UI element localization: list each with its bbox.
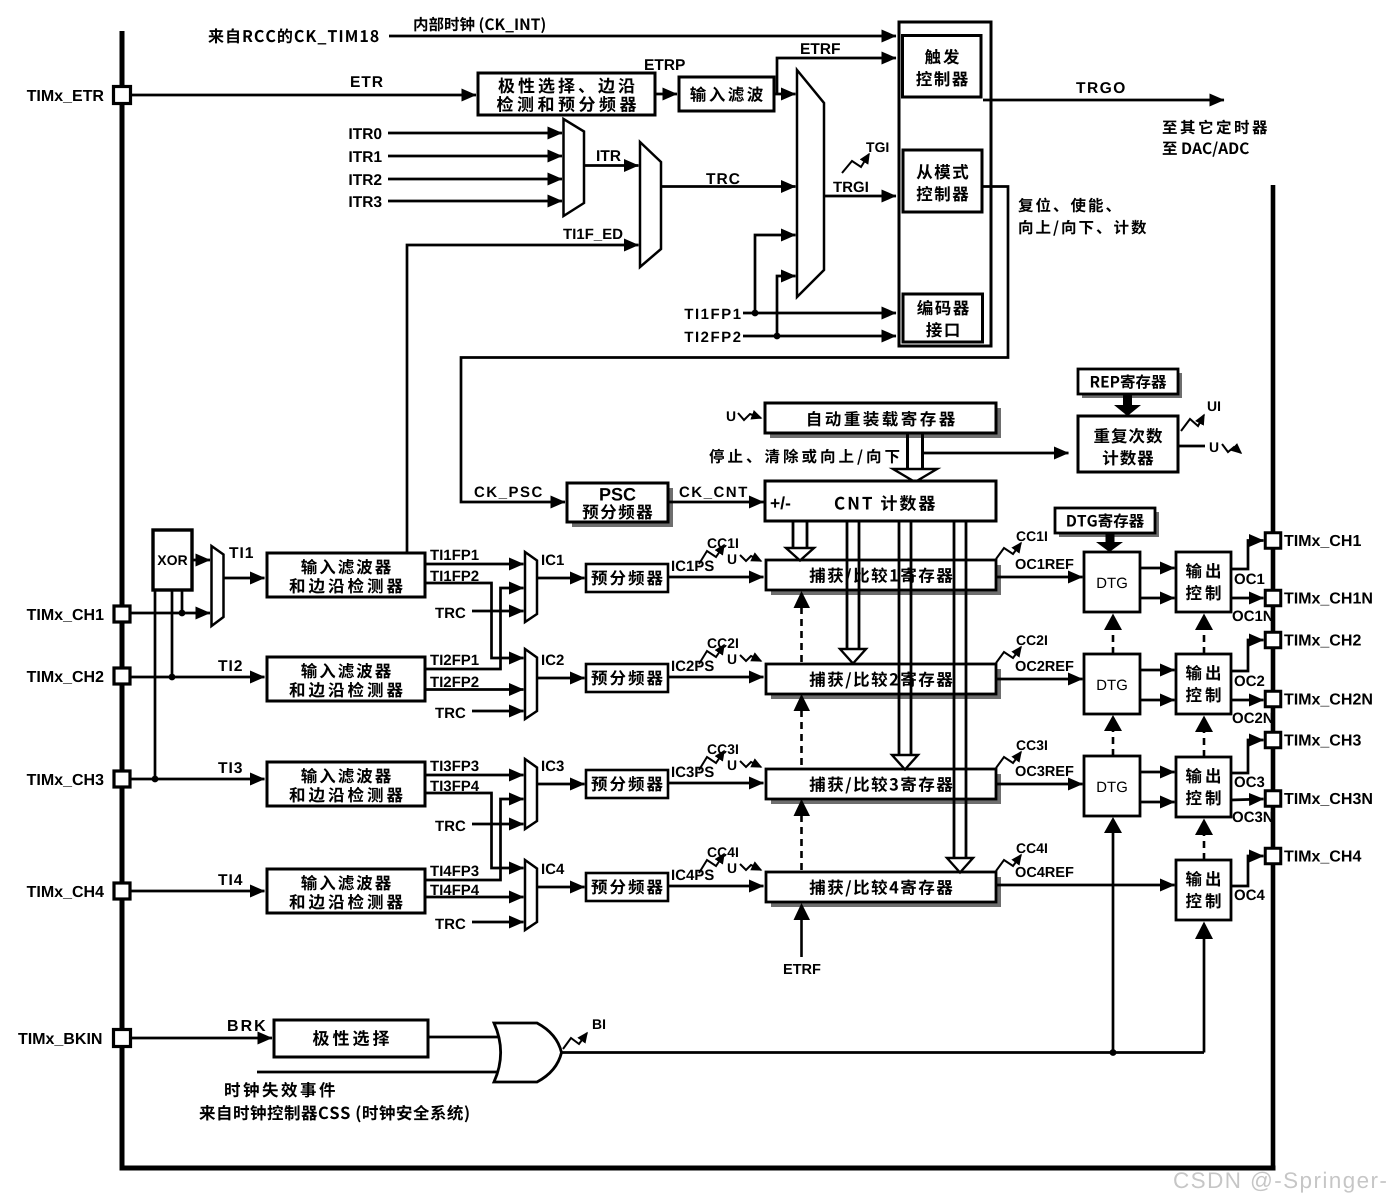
zigzag CC3I left xyxy=(699,744,738,770)
label TI3FP3 xyxy=(430,761,439,771)
wire TI2FP1 cross to IC1 mux xyxy=(425,588,524,669)
zigzag CC2I right xyxy=(996,635,1047,663)
label IC3 xyxy=(542,761,544,771)
arrow REP to repetition counter xyxy=(1114,394,1141,416)
label IC4PS xyxy=(672,870,674,880)
label IC2PS xyxy=(672,661,674,671)
pad TIMx_CH4 left xyxy=(114,883,130,899)
wire OC3N xyxy=(1231,799,1264,800)
wire BI dashed DTG2 xyxy=(1104,715,1122,756)
wire OC3 xyxy=(1231,740,1264,773)
box XOR xyxy=(153,530,192,590)
wire TI2FP2 to encoder xyxy=(743,335,896,338)
wire OC1 xyxy=(1231,541,1264,570)
wire left port bus xyxy=(120,31,125,1168)
wire TI3 input xyxy=(130,778,265,781)
wire TRC row3 xyxy=(472,823,524,826)
label 至 DAC/ADC xyxy=(1163,142,1177,155)
label ETRF bottom xyxy=(784,964,792,974)
label TI4FP4 xyxy=(430,885,439,895)
wire OC2REF xyxy=(996,678,1083,681)
label IC4 xyxy=(542,864,544,874)
mux IC4 select xyxy=(525,860,537,930)
wire OC2 xyxy=(1231,640,1264,671)
label IC1 xyxy=(542,555,544,565)
wire ITR0 xyxy=(388,132,562,135)
label TRC row1 xyxy=(435,608,444,618)
wire TI1FP1 xyxy=(425,563,524,566)
wire CK_INT internal clock xyxy=(389,35,896,38)
wire polarity to OR gate xyxy=(428,1036,500,1039)
label TIMx_CH1 right xyxy=(1284,535,1293,546)
label ITR2 xyxy=(349,174,351,185)
pad TIMx_CH2 right xyxy=(1265,632,1281,648)
wire TI1 xyxy=(224,577,265,580)
wire ITR3 xyxy=(388,200,562,203)
node junction TI1FP1 xyxy=(752,310,759,317)
label OC2N xyxy=(1233,713,1243,724)
wire TI1FP1 to trigger mux xyxy=(755,235,796,313)
label TI1FP1 xyxy=(430,550,439,560)
zigzag U into CC2 xyxy=(728,654,761,664)
label TI3 xyxy=(218,762,227,773)
label CK_PSC xyxy=(475,487,485,498)
label 复位使能 xyxy=(1018,198,1033,213)
mux IC1 select xyxy=(525,552,537,622)
wire dashed update CC3 xyxy=(794,799,811,871)
wire BI dashed DTG1 xyxy=(1104,614,1122,655)
label ETR xyxy=(351,76,360,87)
zigzag CC1I left xyxy=(699,538,738,564)
box CNT counter xyxy=(765,481,996,521)
wire dashed update CC2 xyxy=(794,694,811,768)
box capture/compare register 2 xyxy=(766,664,1001,699)
label TIMx_CH1 left xyxy=(27,609,36,620)
wire XOR out xyxy=(192,559,210,562)
box input filter edge detector TI3 xyxy=(267,762,425,806)
wire TI4FP3 cross to IC3 mux xyxy=(425,799,524,880)
wire IC4PS xyxy=(668,885,764,888)
wire IC3PS xyxy=(668,782,764,785)
wire DTG1 out a xyxy=(1140,567,1175,570)
mux ITR select xyxy=(564,119,585,216)
pad TIMx_CH1 left xyxy=(114,606,130,622)
mux TI1 select xyxy=(212,546,224,626)
wire TI2FP2 to trigger mux xyxy=(777,276,796,336)
wire ETRP xyxy=(655,93,677,96)
wire OC4REF xyxy=(996,884,1175,887)
box input filter edge detector TI1 xyxy=(267,553,425,597)
wire hollow arrow CNT to CC3 xyxy=(892,521,918,770)
box PSC prescaler xyxy=(567,483,673,527)
wire TI1FP2 cross to IC2 mux xyxy=(425,583,524,658)
wire TI3FP3 xyxy=(425,774,524,777)
wire TRGI xyxy=(824,195,896,198)
wire IC1PS xyxy=(668,576,764,579)
wire TI4 input xyxy=(130,890,265,893)
wire U out of repetition counter xyxy=(1178,445,1205,448)
label TRC row3 xyxy=(435,821,444,831)
wire BI dashed OC1 xyxy=(1195,614,1213,655)
wire BRK xyxy=(130,1037,272,1040)
pad TIMx_BKIN xyxy=(114,1030,131,1047)
zigzag BI interrupt xyxy=(563,1019,605,1049)
box capture/compare register 4 xyxy=(766,872,1001,907)
wire DTG3 out a xyxy=(1140,771,1175,774)
wire BI to output controls xyxy=(562,1051,1205,1054)
wire BI dashed OC3 xyxy=(1195,819,1213,861)
zigzag U into CC1 xyxy=(728,554,761,564)
box DTG2 xyxy=(1084,654,1140,714)
label 时钟失效事件 xyxy=(225,1082,240,1097)
wire ETRF into CC4 xyxy=(794,903,811,957)
label TI1 xyxy=(229,547,238,558)
box output control 2 xyxy=(1176,654,1231,714)
label TI4FP3 xyxy=(430,866,439,876)
wire TRC to trigger mux xyxy=(661,185,796,188)
box IC4 prescaler 预分频器 xyxy=(586,873,668,901)
node junction BI-DTG xyxy=(1110,1049,1117,1056)
label TIMx_CH1N right xyxy=(1284,593,1293,604)
wire IC3 xyxy=(537,783,585,786)
box input filter edge detector TI4 xyxy=(267,869,425,913)
label TIMx_CH4 left xyxy=(27,886,36,897)
node junction CH2-XOR xyxy=(169,674,176,681)
label 至其它定时器 xyxy=(1163,121,1177,134)
label ITR0 xyxy=(349,128,351,139)
box capture/compare register 1 xyxy=(766,560,1001,595)
label 停止清除或向上向下 xyxy=(709,449,724,464)
wire BI up DTG column xyxy=(1104,817,1122,1053)
label TI1FP1 encoder xyxy=(684,309,693,319)
box repetition counter 重复次数计数器 xyxy=(1078,416,1178,472)
wire ITR selected xyxy=(584,164,639,167)
wire OC1REF xyxy=(996,576,1083,579)
box input filter edge detector TI2 xyxy=(267,657,425,701)
wire bottom border xyxy=(120,1166,1276,1171)
zigzag TGI interrupt xyxy=(842,142,888,173)
wire CSS clock failure xyxy=(257,1071,500,1074)
wire TI2FP2 xyxy=(425,688,524,691)
box output control 4 xyxy=(1176,860,1231,920)
label OC3REF xyxy=(1016,766,1026,776)
box controller outer xyxy=(899,22,991,346)
label OC1REF xyxy=(1016,559,1026,569)
mux TRC select xyxy=(640,142,661,267)
zigzag U into CC3 xyxy=(728,760,761,770)
watermark CSDN xyxy=(1174,1172,1188,1188)
label TRC top xyxy=(706,173,715,184)
wire XOR input 1 xyxy=(181,590,184,613)
wire OC2N xyxy=(1231,699,1264,702)
label TIMx_CH2 right xyxy=(1284,635,1293,646)
node junction CH3-XOR xyxy=(152,776,159,783)
label TRGI xyxy=(833,182,842,192)
label OC4REF xyxy=(1016,867,1026,877)
arrow DTG register to DTG1 xyxy=(1096,533,1123,552)
wire dashed update CC1 xyxy=(794,591,811,662)
wire ITR1 xyxy=(388,155,562,158)
label 来自RCC的CK_TIM18 xyxy=(208,28,223,43)
wire TI3FP4 cross to IC4 mux xyxy=(425,793,524,868)
wire IC4 xyxy=(537,886,585,889)
pad TIMx_CH2N right xyxy=(1265,691,1281,707)
wire TI4FP4 xyxy=(425,896,524,899)
label TIMx_CH4 right xyxy=(1284,851,1293,862)
label IC3PS xyxy=(672,767,674,777)
wire IC1 xyxy=(537,577,585,580)
box IC3 prescaler 预分频器 xyxy=(586,770,668,798)
label TI2FP2 xyxy=(430,677,439,687)
wire IC2 xyxy=(537,677,585,680)
wire hollow arrow ARR to CNT xyxy=(893,433,937,482)
zigzag U into CC4 xyxy=(728,863,761,873)
box polarity/edge-detect/prescaler U-ETR xyxy=(478,73,655,115)
wire hollow arrow CNT to CC1 xyxy=(786,521,814,561)
pad TIMx_CH1N right xyxy=(1265,590,1281,606)
label 内部时钟 (CK_INT) xyxy=(414,17,427,32)
label TIMx_CH2N right xyxy=(1284,694,1293,705)
label TIMx_CH2 left xyxy=(27,671,36,682)
mux trigger input select xyxy=(797,70,824,297)
box DTG3 xyxy=(1084,756,1140,816)
wire ETRF xyxy=(777,58,896,94)
label TIMx_CH3N right xyxy=(1284,793,1293,804)
label IC1PS xyxy=(672,561,674,571)
box output control 3 xyxy=(1176,757,1231,817)
mux IC2 select xyxy=(525,649,537,719)
box slave mode controller 从模式控制器 xyxy=(903,150,982,212)
pad TIMx_CH3 right xyxy=(1265,732,1281,748)
label TI1FP2 xyxy=(430,571,439,581)
label OC3N xyxy=(1233,812,1243,823)
wire TI1FP1 to encoder xyxy=(743,312,896,315)
zigzag CC4I right xyxy=(996,843,1047,871)
pad TIMx_CH1 right xyxy=(1265,533,1281,549)
label TIMx_ETR xyxy=(27,90,36,101)
zigzag CC4I left xyxy=(699,847,738,873)
wire TRC row1 xyxy=(472,610,524,613)
node junction CH1-XOR xyxy=(179,610,186,617)
wire OC4 xyxy=(1231,856,1264,886)
wire DTG1 out b xyxy=(1140,597,1175,600)
wire U to repetition counter xyxy=(921,452,1069,455)
label 向上向下计数 xyxy=(1019,220,1032,235)
box IC2 prescaler 预分频器 xyxy=(586,664,668,692)
label BRK xyxy=(228,1020,238,1031)
label ITR1 xyxy=(349,151,351,162)
mux IC3 select xyxy=(525,759,537,829)
label TIMx_BKIN xyxy=(18,1033,27,1044)
label ITR xyxy=(597,150,599,161)
pad TIMx_CH3 left xyxy=(114,771,130,787)
box IC1 prescaler 预分频器 xyxy=(586,564,668,592)
box DTG register DTG寄存器 xyxy=(1055,508,1159,537)
zigzag CC1I right xyxy=(996,531,1047,559)
label OC3 xyxy=(1235,777,1245,788)
box input filter 输入滤波 xyxy=(679,77,774,111)
box DTG1 xyxy=(1084,552,1140,612)
wire TI2 input xyxy=(130,676,265,679)
wire ITR2 xyxy=(388,178,562,181)
wire TRC row2 xyxy=(472,710,524,713)
box output control 1 xyxy=(1176,552,1231,612)
wire TI1F_ED xyxy=(407,245,639,553)
pad TIMx_CH3N right xyxy=(1265,791,1281,807)
wire hollow arrow CNT to CC2 xyxy=(840,521,866,664)
wire DTG2 out a xyxy=(1140,669,1175,672)
wire XOR input 3 xyxy=(154,590,157,779)
label TRGO xyxy=(1076,82,1085,93)
box auto-reload register 自动重装载寄存器 xyxy=(765,403,1001,438)
pad TIMx_ETR xyxy=(114,87,131,104)
label TIMx_CH3 left xyxy=(27,774,36,785)
wire TIMx_CH1 input xyxy=(130,612,210,615)
label OC2REF xyxy=(1016,661,1026,671)
wire DTG3 out b xyxy=(1140,801,1175,804)
wire CK_CNT xyxy=(668,501,764,504)
label ETRF xyxy=(801,43,810,54)
label CK_CNT xyxy=(680,487,690,498)
box trigger controller 触发控制器 xyxy=(903,36,982,98)
label TI4 xyxy=(218,874,227,885)
label TI2 xyxy=(218,660,227,671)
box encoder interface 编码器接口 xyxy=(903,294,983,342)
wire BI dashed OC2 xyxy=(1195,716,1213,758)
label OC2 xyxy=(1235,676,1245,687)
label TI2FP2 encoder xyxy=(684,332,693,342)
zigzag U update ARR xyxy=(727,411,761,421)
pad TIMx_CH4 right xyxy=(1265,848,1281,864)
label TRC row4 xyxy=(435,919,444,929)
wire DTG2 out b xyxy=(1140,699,1175,702)
wire filtered ETR to trigger mux xyxy=(774,93,796,96)
label TI1F_ED xyxy=(563,229,572,239)
zigzag CC2I left xyxy=(699,638,738,664)
pad TIMx_CH2 left xyxy=(114,668,130,684)
wire TRGO xyxy=(983,99,1224,102)
wire OC1N xyxy=(1231,597,1264,600)
wire IC2PS xyxy=(668,676,764,679)
wire slave-mode control to prescaler CK_PSC xyxy=(461,187,1008,503)
box REP register REP寄存器 xyxy=(1078,369,1182,398)
label IC2 xyxy=(542,655,544,665)
label OC4 xyxy=(1235,890,1245,901)
wire ETR xyxy=(130,94,476,97)
zigzag CC3I right xyxy=(996,740,1047,768)
wire XOR input 2 xyxy=(171,590,174,677)
label TI3FP4 xyxy=(430,781,439,791)
zigzag UI interrupt xyxy=(1181,401,1220,431)
label ETRP xyxy=(645,59,654,70)
wire OC3REF xyxy=(996,783,1083,786)
gate OR break xyxy=(494,1023,562,1082)
box polarity select 极性选择 xyxy=(274,1020,428,1057)
label TIMx_CH3 right xyxy=(1284,735,1293,746)
label OC1N xyxy=(1233,611,1243,622)
label 来自时钟控制器CSS xyxy=(199,1105,215,1120)
node junction TI2FP2 xyxy=(774,333,781,340)
label ITR3 xyxy=(349,196,351,207)
wire hollow arrow CNT to CC4 xyxy=(947,521,973,873)
box capture/compare register 3 xyxy=(766,769,1001,804)
wire TRC row4 xyxy=(472,921,524,924)
zigzag U event out xyxy=(1210,442,1241,453)
label TI2FP1 xyxy=(430,655,439,665)
wire BI up output-control column xyxy=(1195,922,1213,1053)
label OC1 xyxy=(1235,574,1245,585)
label TRC row2 xyxy=(435,708,444,718)
wire right port bus xyxy=(1271,185,1276,1168)
